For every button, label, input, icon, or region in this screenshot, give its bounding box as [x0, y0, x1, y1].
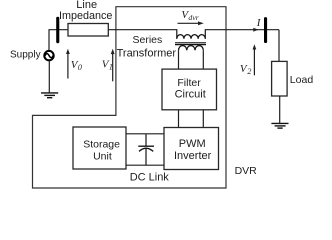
svg-text:Supply: Supply: [10, 50, 41, 61]
DVR enclosure box (L-shaped): [33, 7, 227, 188]
svg-text:I: I: [256, 17, 262, 29]
core lines: [175, 42, 206, 44]
primary winding: [177, 35, 206, 39]
wire: supply top vertical: [48, 30, 50, 51]
block: PWM Inverter: [164, 128, 219, 170]
arrow: Vdvr direction: [178, 21, 204, 25]
wire: DC link top: [126, 133, 164, 135]
label: Series Transformer: [117, 34, 177, 59]
wire: DC link bottom: [126, 164, 164, 166]
voltage arrow V2: [253, 44, 257, 75]
voltage arrow V1: [111, 49, 115, 82]
block: Filter Circuit: [162, 69, 217, 110]
svg-text:DVR: DVR: [235, 165, 258, 177]
svg-text:Transformer: Transformer: [117, 47, 177, 59]
svg-text:Circuit: Circuit: [175, 89, 206, 101]
current arrowhead I: [253, 28, 258, 32]
svg-text:V2: V2: [240, 63, 252, 76]
right jog: [204, 29, 206, 39]
svg-text:Filter: Filter: [177, 77, 201, 89]
capacitor: DC link: [138, 134, 154, 165]
svg-text:Load: Load: [290, 74, 314, 86]
AC source: supply: [44, 51, 53, 60]
wire: load to ground: [279, 96, 281, 123]
wire: load corner down: [278, 30, 280, 62]
wire: secondary left leg to filter: [178, 50, 180, 69]
left jog: [176, 29, 178, 39]
wire: filter to PWM left leg: [178, 110, 180, 128]
svg-text:DC Link: DC Link: [130, 172, 170, 184]
wire: supply to ground: [48, 61, 50, 93]
svg-text:V0: V0: [71, 59, 82, 72]
svg-text:Impedance: Impedance: [59, 10, 112, 22]
ground (load): [271, 123, 288, 128]
ground (supply): [41, 93, 58, 98]
wire: filter to PWM right leg: [202, 110, 204, 128]
svg-text:Storage: Storage: [83, 139, 120, 151]
transformer T1 (series): [175, 29, 206, 50]
resistor: line impedance: [68, 24, 108, 37]
load resistor box: [272, 61, 288, 96]
svg-text:V1: V1: [102, 59, 113, 72]
svg-text:PWM: PWM: [179, 138, 206, 150]
bus bar (load side): [264, 17, 267, 43]
bus bar (supply side): [56, 17, 59, 44]
wire: secondary right leg to filter: [202, 50, 204, 69]
block: Storage Unit: [73, 127, 126, 169]
svg-text:Series: Series: [133, 34, 163, 46]
wire: supply to line impedance: [49, 29, 69, 31]
secondary winding: [179, 46, 204, 51]
wire: transformer to load bus: [205, 29, 279, 31]
label: Line Impedance: [59, 0, 112, 22]
svg-text:Unit: Unit: [93, 150, 112, 162]
svg-text:Inverter: Inverter: [174, 150, 212, 162]
voltage arrow V0: [66, 49, 70, 79]
wire: resistor to series transformer: [108, 29, 177, 31]
svg-text:Vdvr: Vdvr: [181, 9, 199, 22]
